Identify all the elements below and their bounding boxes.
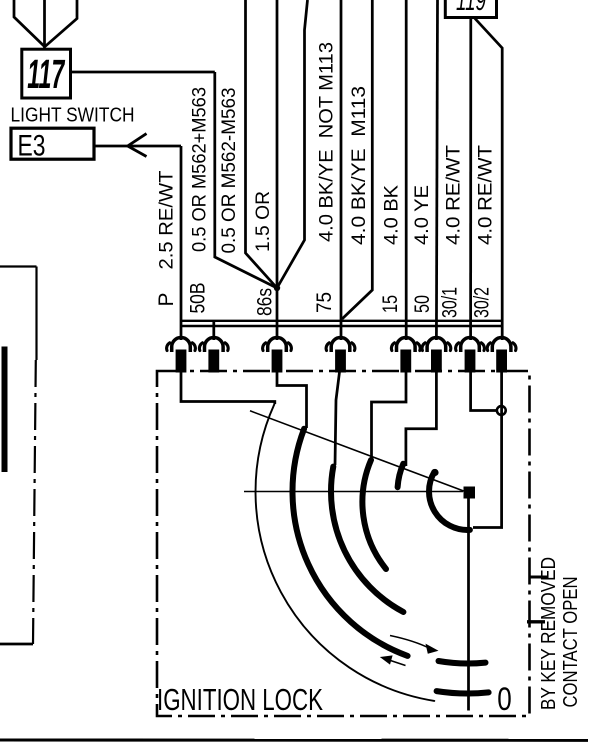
contact arc terminal 86s — [292, 429, 407, 656]
contact arc terminal 75 — [331, 467, 403, 612]
arrow wire from light switch E3 to terminal P column — [94, 145, 181, 148]
wire unlabelled branch merging into 86s node — [277, 0, 308, 288]
connector socket P — [172, 338, 191, 353]
svg-text:0: 0 — [497, 681, 512, 717]
connector pin 86s — [272, 350, 283, 373]
svg-text:E3: E3 — [18, 130, 46, 163]
outer thin contact path arc (terminal P) — [256, 404, 435, 701]
ignition lock dash-dot border — [157, 371, 530, 716]
connector socket 15 — [397, 338, 416, 353]
svg-text:BY KEY REMOVED: BY KEY REMOVED — [537, 557, 560, 710]
svg-text:IGNITION LOCK: IGNITION LOCK — [157, 683, 323, 717]
wire 86s inside lock to contact arc — [277, 372, 307, 428]
adjacent box top border (cut off at left) — [0, 265, 37, 267]
adjacent box bottom border (cut off at left) — [0, 643, 33, 646]
svg-text:1.5 OR: 1.5 OR — [252, 191, 274, 252]
connector socket 75 — [331, 338, 350, 352]
connector pin P — [176, 350, 187, 373]
position 0 radial line below pivot — [467, 498, 470, 711]
svg-text:CONTACT OPEN: CONTACT OPEN — [559, 577, 582, 708]
light switch box E3 — [11, 128, 94, 159]
svg-text:30/1: 30/1 — [439, 287, 462, 318]
svg-text:86s: 86s — [254, 288, 277, 316]
wire P inside lock to outer contact arc — [181, 372, 275, 404]
rotation arrow clockwise — [390, 636, 430, 649]
wire 4.0 BK/YE M113 merging into 75 column — [342, 0, 372, 319]
svg-text:50B: 50B — [186, 283, 209, 314]
contact bar at position 0 (inner) — [439, 661, 486, 664]
connector socket 50 — [427, 338, 446, 353]
terminal strip lower rail — [180, 325, 503, 327]
connector pin 30/1 — [465, 350, 476, 373]
connector pin 50 — [431, 350, 442, 373]
wire 0.5 OR M562+M563 from connector 117, merging into 86s node — [215, 72, 277, 288]
svg-text:15: 15 — [379, 295, 402, 313]
adjacent box right border dash-dot part — [33, 360, 36, 644]
contact arc terminal 15 — [362, 460, 386, 569]
svg-text:0.5 OR M562-M563: 0.5 OR M562-M563 — [218, 88, 240, 254]
connector pin 15 — [400, 350, 411, 373]
tick mark mid caption — [527, 620, 545, 623]
connector box 119 (cut off at top) — [445, 0, 496, 18]
tick mark above caption — [530, 576, 548, 579]
contact circle (open by key removed) — [497, 406, 506, 415]
wire 30/1 inside lock to key-removed contact — [471, 372, 497, 411]
wire 30/2 inside lock down to inner arc — [473, 372, 502, 528]
rotation arrow counter-clockwise — [386, 659, 406, 666]
connector socket 30/2 — [492, 338, 511, 353]
svg-text:4.0 RE/WT: 4.0 RE/WT — [443, 145, 465, 245]
svg-text:4.0 YE: 4.0 YE — [411, 185, 433, 245]
svg-text:4.0 BK/YE M113: 4.0 BK/YE M113 — [348, 86, 370, 245]
wiper radial line (upper position) — [250, 411, 469, 493]
contact arc terminal 50 — [398, 464, 404, 488]
inner contact arc terminal 30/2 (key removed) — [429, 472, 470, 530]
svg-text:117: 117 — [27, 51, 65, 97]
wire 30/1 column (4.0 RE/WT) from connector 119 to terminal strip — [469, 17, 472, 340]
svg-text:P: P — [155, 292, 178, 306]
node 86s junction — [274, 285, 280, 291]
wire P column (2.5 RE/WT) from arrow to terminal strip — [180, 146, 183, 340]
svg-text:30/2: 30/2 — [471, 287, 494, 318]
svg-text:75: 75 — [313, 292, 336, 313]
svg-text:0.5 OR M562+M563: 0.5 OR M562+M563 — [189, 87, 211, 252]
wire 75 inside lock to contact arc — [335, 372, 340, 465]
svg-text:4.0 RE/WT: 4.0 RE/WT — [475, 145, 497, 245]
wire 75 column (4.0 BK/YE NOT M113) to terminal strip — [340, 0, 343, 340]
svg-text:119: 119 — [456, 0, 486, 17]
knob at end of inner arc — [431, 469, 438, 476]
connector socket 86s — [268, 338, 287, 352]
connector pin 50B — [208, 350, 219, 373]
connector socket 50B — [205, 338, 224, 353]
terminal strip upper rail — [180, 320, 503, 322]
contact bar at position 0 (outer) — [437, 691, 489, 693]
wire 50 column (4.0 YE) to terminal strip — [436, 0, 437, 340]
wiper radial line (horizontal position) — [244, 491, 463, 493]
wire 15 column (4.0 BK) to terminal strip — [405, 0, 408, 340]
black bar at left edge (cut off element) — [2, 347, 8, 473]
connector socket 30/1 — [461, 337, 480, 352]
svg-text:4.0 BK/YE NOT M113: 4.0 BK/YE NOT M113 — [316, 42, 338, 242]
pivot of ignition switch — [464, 487, 476, 499]
wire 15 inside lock to contact arc — [372, 372, 407, 460]
svg-text:2.5 RE/WT: 2.5 RE/WT — [156, 170, 178, 269]
wire funnel left branch into connector 117 — [14, 0, 45, 47]
svg-text:50: 50 — [411, 295, 434, 313]
wire funnel right branch into connector 117 — [45, 0, 77, 47]
svg-text:LIGHT SWITCH: LIGHT SWITCH — [11, 103, 135, 126]
svg-text:4.0 BK: 4.0 BK — [381, 185, 403, 245]
wire from connector 117 to 50B column — [69, 71, 215, 74]
wire 0.5 OR M562-M563 merging into 86s node — [246, 0, 278, 288]
wire 50 inside lock to contact arc — [406, 372, 437, 466]
connector box 117 — [22, 49, 71, 98]
wire 1.5 OR / 86s column to terminal strip — [276, 0, 279, 340]
connector pin 75 — [335, 350, 346, 373]
stub 50B from strip to connector — [212, 321, 215, 340]
wire funnel middle branch into connector 117 — [43, 0, 46, 49]
wire 30/2 column (4.0 RE/WT) from connector 119 to terminal strip — [475, 18, 503, 340]
adjacent box right border solid part — [35, 267, 37, 361]
connector pin 30/2 — [496, 350, 507, 373]
bottom page border line — [0, 738, 588, 741]
